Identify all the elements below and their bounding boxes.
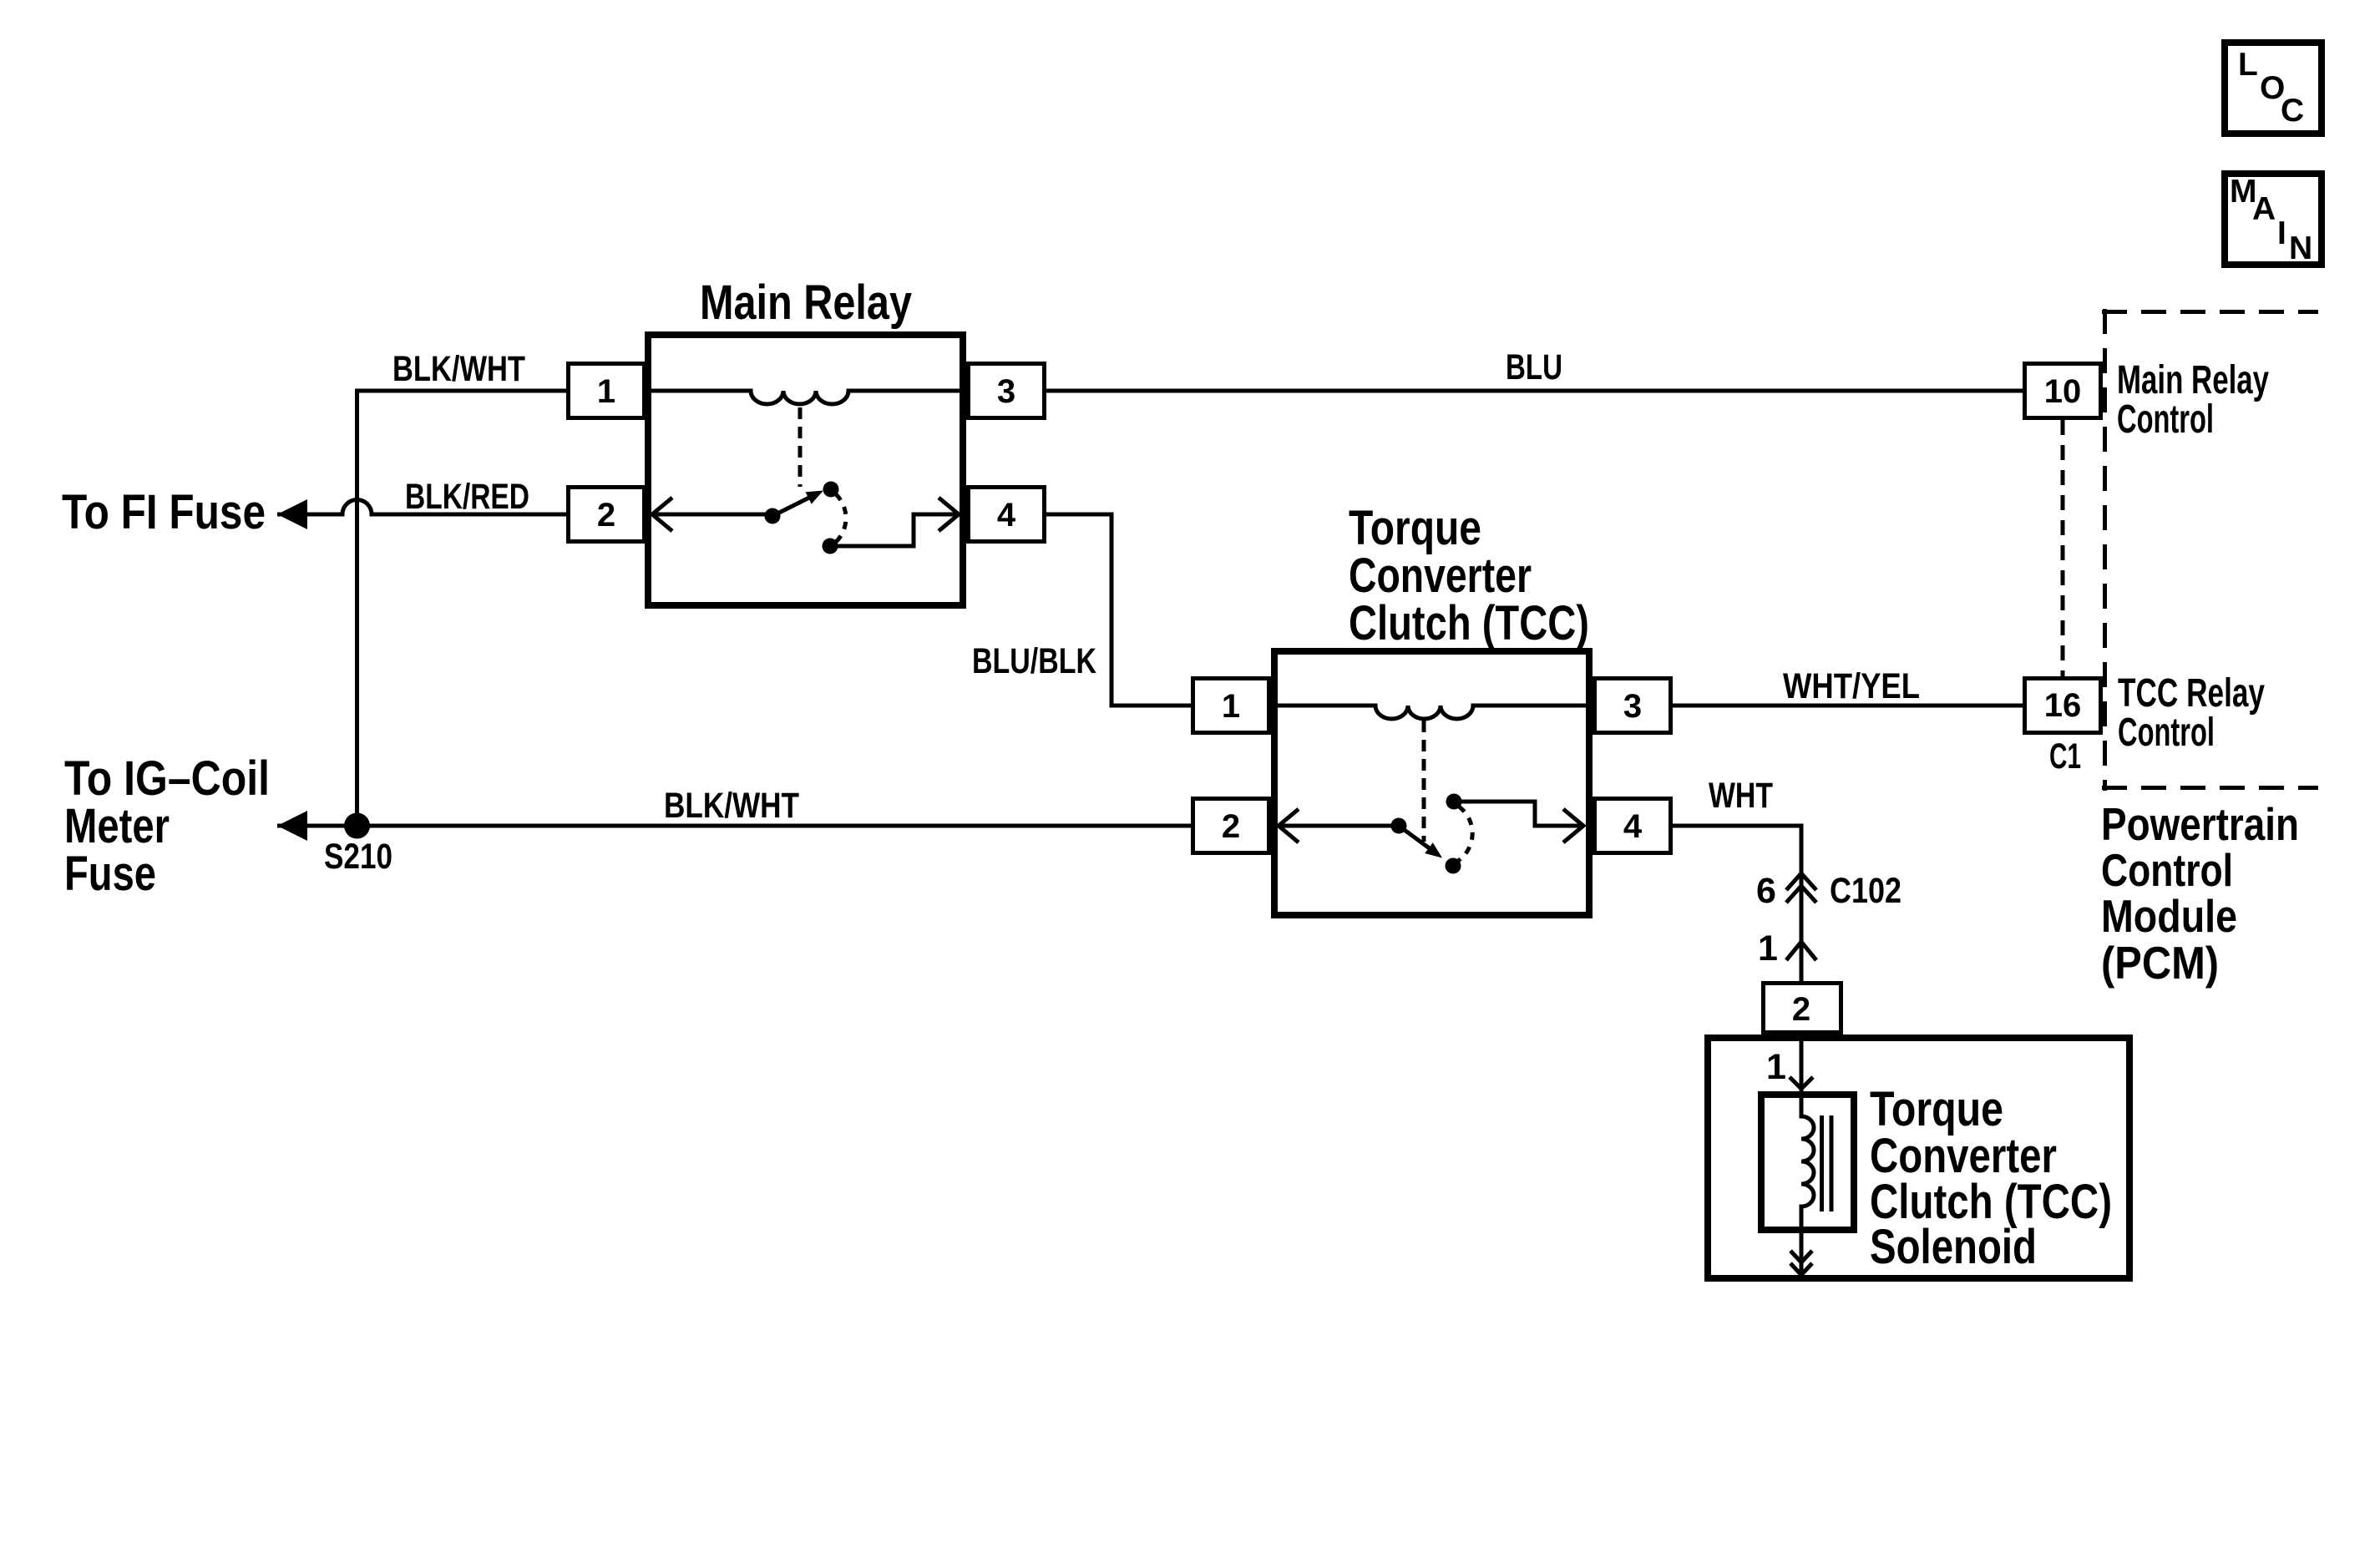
PCM pin 10 <box>2025 364 2101 418</box>
solenoid core bars <box>1822 1115 1832 1211</box>
svg-text:I: I <box>2277 215 2286 251</box>
Main Relay switch travel dashed arc <box>835 494 846 543</box>
svg-text:WHT/YEL: WHT/YEL <box>1783 666 1920 706</box>
svg-text:WHT: WHT <box>1709 776 1773 816</box>
svg-text:4: 4 <box>997 497 1016 534</box>
svg-text:4: 4 <box>1623 808 1643 845</box>
solenoid internal wire with arrow <box>1790 1034 1813 1091</box>
TCC switch pivot contact <box>1391 818 1407 834</box>
TCC pin 4 <box>1595 799 1671 853</box>
TCC switch common line from pin 2 <box>1279 809 1399 842</box>
TCC contact line to pin 4 <box>1454 802 1583 842</box>
svg-text:Solenoid: Solenoid <box>1870 1220 2037 1274</box>
solenoid TCC Solenoid box <box>1708 1038 2129 1278</box>
TCC switch arm with arrow <box>1399 826 1431 849</box>
label Main Relay Control <box>2117 358 2269 442</box>
label Torque Converter Clutch (TCC) Solenoid <box>1870 1082 2112 1274</box>
svg-text:Main Relay: Main Relay <box>700 276 912 330</box>
svg-text:Control: Control <box>2117 397 2214 442</box>
wire BLU from Main Relay pin 3 to PCM pin 10 <box>1046 389 2023 393</box>
Main Relay switch pivot contact <box>765 508 781 524</box>
MAIN inset box <box>2225 174 2322 266</box>
svg-text:3: 3 <box>997 373 1015 410</box>
svg-text:C: C <box>2281 93 2304 129</box>
label To IG-Coil Meter Fuse <box>64 751 270 901</box>
svg-text:1: 1 <box>1758 928 1778 969</box>
Main Relay lower contact <box>823 539 838 554</box>
svg-text:16: 16 <box>2044 687 2082 724</box>
svg-text:Control: Control <box>2101 844 2233 896</box>
svg-text:3: 3 <box>1623 688 1642 725</box>
TCC coil <box>1274 706 1589 719</box>
connector C102 double chevron <box>1786 873 1816 903</box>
svg-text:Module: Module <box>2101 890 2237 942</box>
wire BLU/BLK from Main Relay pin 4 to TCC pin 1 <box>1046 514 1191 706</box>
svg-text:L: L <box>2238 47 2258 83</box>
TCC switch travel dashed arc <box>1458 807 1472 861</box>
svg-text:To FI Fuse: To FI Fuse <box>62 485 266 539</box>
svg-text:Powertrain: Powertrain <box>2101 798 2299 850</box>
svg-text:To IG–Coil: To IG–Coil <box>64 751 270 806</box>
solenoid coil <box>1801 1091 1814 1233</box>
PCM dashed box <box>2102 309 2318 791</box>
svg-text:(PCM): (PCM) <box>2101 937 2219 989</box>
wire WHT from TCC pin 4 to solenoid connector <box>1673 826 1801 981</box>
Main Relay contact line to pin 4 <box>830 498 959 546</box>
Main Relay pin 4 <box>969 488 1045 542</box>
svg-text:2: 2 <box>1222 808 1240 845</box>
svg-text:BLK/WHT: BLK/WHT <box>664 786 799 826</box>
relay TCC title <box>1349 501 1589 650</box>
wire BLK/WHT from splice up to Main Relay pin 1 <box>357 391 567 826</box>
label Powertrain Control Module (PCM) <box>2101 798 2299 989</box>
arrow to FI Fuse <box>277 499 307 529</box>
svg-text:Converter: Converter <box>1349 549 1532 603</box>
svg-text:6: 6 <box>1756 871 1776 911</box>
dashed control line pin 10 to pin 16 <box>2061 420 2065 676</box>
Main Relay pin 3 <box>969 364 1045 418</box>
svg-text:C102: C102 <box>1830 871 1901 911</box>
svg-text:1: 1 <box>1222 688 1240 725</box>
wire WHT/YEL from TCC pin 3 to PCM pin 16 <box>1673 704 2023 708</box>
svg-text:2: 2 <box>597 497 615 534</box>
svg-text:2: 2 <box>1792 991 1810 1028</box>
svg-text:BLU/BLK: BLU/BLK <box>972 641 1096 681</box>
Main Relay upper contact <box>823 482 839 498</box>
svg-text:Main Relay: Main Relay <box>2117 358 2269 402</box>
TCC pin 1 <box>1193 679 1269 733</box>
TCC coil actuation dashed line <box>1422 721 1426 842</box>
svg-text:Fuse: Fuse <box>64 847 156 901</box>
connector single chevron <box>1786 942 1816 960</box>
wire BLK/RED from To FI Fuse arrow to Main Relay pin 2 (hop over vertical wire) <box>277 500 566 515</box>
wire BLK/WHT from To IG-Coil arrow through S210 to TCC pin 2 <box>277 824 1191 828</box>
Main Relay switch common line from pin 2 <box>652 498 772 531</box>
svg-text:BLK/WHT: BLK/WHT <box>392 349 525 389</box>
svg-text:Meter: Meter <box>64 799 170 853</box>
svg-text:TCC Relay: TCC Relay <box>2118 671 2265 716</box>
svg-text:A: A <box>2252 191 2276 227</box>
svg-text:1: 1 <box>1766 1047 1786 1087</box>
solenoid pin 2 box <box>1764 984 1841 1033</box>
svg-text:10: 10 <box>2044 373 2082 410</box>
svg-text:N: N <box>2289 230 2312 266</box>
svg-text:1: 1 <box>597 373 615 410</box>
solenoid inner component box <box>1761 1095 1854 1230</box>
svg-text:BLK/RED: BLK/RED <box>405 477 529 517</box>
TCC pin 2 <box>1193 799 1269 853</box>
relay TCC box <box>1274 651 1589 915</box>
Main Relay switch arm with arrow <box>772 498 810 517</box>
svg-text:S210: S210 <box>324 837 392 877</box>
svg-text:BLU: BLU <box>1506 347 1562 387</box>
solenoid output wire with double arrow <box>1790 1233 1812 1275</box>
arrow to IG-Coil Meter Fuse <box>277 811 307 841</box>
Main Relay pin 2 <box>569 488 645 542</box>
Main Relay coil <box>648 391 963 404</box>
svg-text:Control: Control <box>2118 711 2215 755</box>
Main Relay pin 1 <box>569 364 645 418</box>
svg-text:Clutch (TCC): Clutch (TCC) <box>1349 596 1589 650</box>
label TCC Relay Control <box>2118 671 2265 755</box>
PCM pin 16 <box>2025 679 2101 733</box>
Main Relay coil actuation dashed line <box>798 407 803 487</box>
svg-text:Torque: Torque <box>1349 501 1481 555</box>
splice node S210 <box>344 813 370 839</box>
LOC inset box <box>2225 43 2322 134</box>
svg-text:C1: C1 <box>2049 736 2081 776</box>
TCC upper contact <box>1446 794 1462 810</box>
relay Main Relay box <box>648 335 963 605</box>
TCC lower contact <box>1446 858 1461 874</box>
TCC pin 3 <box>1595 679 1671 733</box>
